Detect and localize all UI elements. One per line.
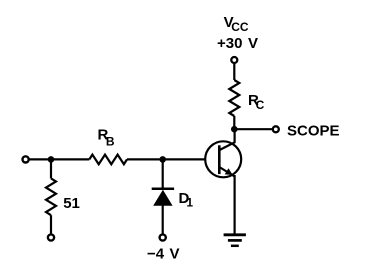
- svg-text:1: 1: [186, 196, 193, 210]
- svg-text:C: C: [256, 98, 265, 112]
- svg-text:CC: CC: [231, 20, 249, 34]
- svg-text:51: 51: [63, 195, 80, 212]
- svg-text:V: V: [248, 35, 258, 52]
- svg-text:SCOPE: SCOPE: [287, 122, 340, 139]
- svg-text:+30: +30: [217, 35, 242, 52]
- svg-text:B: B: [106, 135, 115, 149]
- svg-text:−4: −4: [147, 246, 165, 263]
- svg-text:V: V: [170, 246, 180, 263]
